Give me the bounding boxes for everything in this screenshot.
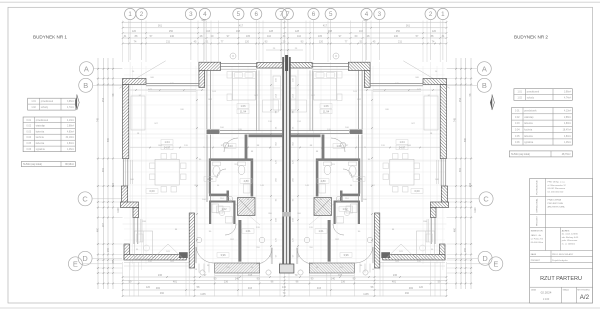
axis bubble B right <box>477 78 491 92</box>
svg-text:1:100: 1:100 <box>543 297 550 301</box>
interior wall bath middle <box>209 158 253 161</box>
svg-text:2,88m²: 2,88m² <box>67 125 74 128</box>
svg-text:0.02: 0.02 <box>27 126 32 128</box>
svg-text:1.04: 1.04 <box>164 140 170 144</box>
building unit 2 (mirrored) <box>285 62 449 273</box>
svg-text:A/2: A/2 <box>580 294 590 301</box>
svg-text:11,94: 11,94 <box>323 110 330 114</box>
svg-text:2,88: 2,88 <box>207 177 213 181</box>
svg-text:0.05: 0.05 <box>515 136 520 138</box>
svg-text:460: 460 <box>160 292 165 295</box>
bedroom right wall (double line) <box>256 70 258 130</box>
furniture sofa <box>131 96 145 130</box>
svg-text:0,00: 0,00 <box>149 189 155 193</box>
svg-text:PRACOWNIA: PRACOWNIA <box>548 199 562 202</box>
axis bubble D right <box>478 251 492 265</box>
axis bubble 6 <box>251 8 262 19</box>
ac unit dark box <box>179 252 188 258</box>
svg-text:A: A <box>84 64 89 73</box>
axis bubble D left <box>78 251 92 265</box>
svg-text:00-000 Wwa: 00-000 Wwa <box>531 242 544 244</box>
svg-text:Projekt budynku: Projekt budynku <box>552 259 568 262</box>
svg-text:105: 105 <box>318 35 323 38</box>
left table lower <box>23 117 75 152</box>
axis bubble 7 <box>276 8 287 19</box>
bottom dimension band <box>123 276 447 278</box>
svg-text:0,00: 0,00 <box>414 189 420 193</box>
title block <box>530 178 593 303</box>
svg-text:tel. 000 000 000: tel. 000 000 000 <box>548 190 564 193</box>
svg-text:460: 460 <box>405 292 410 295</box>
svg-text:4,74m²: 4,74m² <box>564 96 571 99</box>
svg-text:0.06: 0.06 <box>27 149 32 151</box>
right table upper <box>514 89 572 101</box>
entrance door arc <box>196 247 214 263</box>
svg-text:1120: 1120 <box>117 207 120 213</box>
svg-text:211: 211 <box>166 40 171 43</box>
svg-text:460: 460 <box>97 227 100 232</box>
level marker <box>363 270 368 275</box>
svg-text:198: 198 <box>236 30 241 33</box>
svg-text:482: 482 <box>409 287 414 290</box>
svg-text:482: 482 <box>156 287 161 290</box>
svg-text:przedsionek: przedsionek <box>36 119 49 122</box>
svg-text:391: 391 <box>459 167 462 172</box>
svg-text:B: B <box>482 81 487 90</box>
svg-text:236: 236 <box>158 274 163 277</box>
exterior wall: bottom-left stub <box>124 244 130 260</box>
party wall footing <box>280 264 294 273</box>
svg-text:3,96: 3,96 <box>343 253 349 257</box>
svg-text:PROJEKTOWA: PROJEKTOWA <box>548 202 564 205</box>
axis bubble 7 <box>282 8 293 19</box>
svg-text:140: 140 <box>331 278 336 281</box>
level marker <box>200 270 205 275</box>
svg-text:3,96m²: 3,96m² <box>67 100 74 103</box>
svg-text:przedsionek: przedsionek <box>527 91 540 94</box>
exterior wall: bottom left section <box>124 255 186 261</box>
svg-text:4,80m²: 4,80m² <box>67 130 74 133</box>
svg-text:236: 236 <box>393 274 398 277</box>
svg-text:80,96m²: 80,96m² <box>65 163 74 166</box>
axis bubble 5 <box>233 8 244 19</box>
svg-text:254: 254 <box>459 97 462 102</box>
svg-text:BUDYNEK NR 2: BUDYNEK NR 2 <box>514 35 548 40</box>
axis bubble C right <box>479 192 493 206</box>
svg-text:1.03: 1.03 <box>227 144 233 148</box>
svg-text:3,96m²: 3,96m² <box>564 91 571 94</box>
svg-text:ADRES: ADRES <box>562 230 570 233</box>
svg-text:O: O <box>232 55 234 58</box>
svg-text:745: 745 <box>454 117 457 122</box>
svg-text:E: E <box>493 259 498 268</box>
interior wall kitchen vertical <box>238 220 241 262</box>
axis bubble 6 <box>308 8 319 19</box>
interior wall bath left <box>209 161 211 194</box>
party wall (centre) <box>282 57 290 273</box>
svg-text:wiatrołap: wiatrołap <box>36 125 46 128</box>
axis bubble 1 <box>437 8 448 19</box>
furniture bed <box>233 72 256 101</box>
svg-text:120: 120 <box>245 40 250 43</box>
svg-text:211: 211 <box>398 40 403 43</box>
svg-text:120: 120 <box>432 30 437 33</box>
stair/shaft block <box>238 198 256 216</box>
bath fixtures <box>213 166 220 176</box>
window left wall <box>122 159 124 187</box>
svg-text:103: 103 <box>359 30 364 33</box>
svg-text:PROJEKT: PROJEKT <box>531 260 541 262</box>
svg-text:417: 417 <box>323 25 328 28</box>
svg-text:0.04: 0.04 <box>515 130 520 132</box>
wc fixtures <box>217 206 224 213</box>
top dimension band <box>123 21 447 23</box>
svg-text:6: 6 <box>312 11 316 18</box>
svg-text:105: 105 <box>246 35 251 38</box>
svg-text:254: 254 <box>102 97 105 102</box>
svg-text:BUDYNEK NR 1: BUDYNEK NR 1 <box>33 35 67 40</box>
furniture dining table <box>155 159 179 185</box>
svg-text:5: 5 <box>237 11 241 18</box>
axis bubble E right <box>489 257 503 271</box>
svg-text:OPRACOWAŁ: OPRACOWAŁ <box>536 198 539 213</box>
svg-text:2,88: 2,88 <box>356 177 362 181</box>
svg-text:198: 198 <box>328 30 333 33</box>
svg-text:110: 110 <box>297 35 302 38</box>
axis bubble A left <box>79 62 93 76</box>
svg-text:1120: 1120 <box>474 207 477 213</box>
right dimension band <box>455 58 457 289</box>
svg-text:460: 460 <box>454 227 457 232</box>
svg-text:ul. Warszawska 12: ul. Warszawska 12 <box>548 184 567 187</box>
svg-text:4: 4 <box>203 11 207 18</box>
interior wall bath right <box>251 161 254 197</box>
svg-text:250: 250 <box>169 30 174 33</box>
svg-text:NR RYSUNKU: NR RYSUNKU <box>577 290 590 292</box>
svg-text:120: 120 <box>146 286 151 289</box>
svg-text:0.03: 0.03 <box>515 123 520 125</box>
interior wall bath bottom <box>209 194 227 197</box>
svg-text:1: 1 <box>441 11 445 18</box>
svg-text:SUMA (cały lokal): SUMA (cały lokal) <box>23 163 42 166</box>
svg-text:0.01: 0.01 <box>27 120 32 122</box>
svg-text:120: 120 <box>319 40 324 43</box>
svg-text:łazienka: łazienka <box>524 136 533 138</box>
svg-text:120: 120 <box>132 30 137 33</box>
svg-text:D: D <box>82 254 87 263</box>
svg-text:1.06: 1.06 <box>240 104 246 108</box>
exterior wall: left upper <box>123 85 129 159</box>
svg-text:240: 240 <box>394 35 399 38</box>
svg-text:7: 7 <box>286 11 290 18</box>
svg-text:120: 120 <box>419 286 424 289</box>
wc left <box>209 201 211 225</box>
svg-text:481: 481 <box>392 281 397 284</box>
svg-text:0.02: 0.02 <box>515 117 520 119</box>
svg-text:3,96: 3,96 <box>220 253 226 257</box>
left table upper <box>28 98 76 110</box>
axis bubble 2 <box>136 8 147 19</box>
party wall top cap <box>285 55 288 71</box>
svg-text:294: 294 <box>469 182 472 187</box>
interior wall hall vertical (double line) <box>206 70 208 129</box>
svg-text:kuchnia: kuchnia <box>36 137 45 139</box>
svg-text:4,80: 4,80 <box>320 179 326 183</box>
svg-text:167: 167 <box>102 222 105 227</box>
svg-text:1.04: 1.04 <box>399 140 405 144</box>
axis bubble 1 <box>125 8 136 19</box>
svg-text:4,84m²: 4,84m² <box>564 135 571 138</box>
exterior wall: step vertical <box>133 208 139 218</box>
porch bottom terrace hatched <box>215 263 260 273</box>
interior wall hall corner <box>207 130 220 135</box>
svg-text:0.03: 0.03 <box>27 131 32 133</box>
window top-left band <box>146 82 199 84</box>
svg-text:D: D <box>482 254 487 263</box>
left dimension band <box>97 58 99 289</box>
svg-text:przedsionek: przedsionek <box>41 100 54 103</box>
svg-text:C: C <box>483 194 489 203</box>
svg-text:5: 5 <box>329 11 333 18</box>
svg-text:POZWOLENIE: POZWOLENIE <box>537 180 539 195</box>
svg-text:PRO JB Sp. z o.o.: PRO JB Sp. z o.o. <box>548 182 566 184</box>
kitchen counter <box>135 231 153 259</box>
svg-text:C: C <box>82 194 88 203</box>
svg-text:m. st. 146501: m. st. 146501 <box>562 242 576 245</box>
svg-text:110: 110 <box>267 35 272 38</box>
right table lower <box>512 108 573 146</box>
axis bubble B left <box>79 78 93 92</box>
svg-text:236: 236 <box>341 281 346 284</box>
svg-text:4: 4 <box>365 11 369 18</box>
axis bubble A right <box>477 62 491 76</box>
axis bubble C left <box>78 192 92 206</box>
svg-text:PROJEKT: PROJEKT <box>537 215 539 226</box>
svg-text:DATA: DATA <box>531 289 536 292</box>
axis bubble E left <box>68 257 82 271</box>
svg-text:4,80: 4,80 <box>243 179 249 183</box>
svg-text:403: 403 <box>317 287 322 290</box>
paper bottom edge <box>0 307 600 309</box>
svg-text:1,46m²: 1,46m² <box>564 141 571 144</box>
svg-text:SKALA: SKALA <box>563 289 570 292</box>
window top-mid band <box>221 63 257 65</box>
svg-text:1,46m²: 1,46m² <box>67 148 74 151</box>
svg-text:34,19m²: 34,19m² <box>66 136 75 139</box>
svg-text:590: 590 <box>464 137 467 142</box>
svg-text:988: 988 <box>363 19 368 22</box>
axis bubble 2 <box>425 8 436 19</box>
exterior wall: top corner vertical <box>199 70 205 87</box>
svg-text:155: 155 <box>107 247 110 252</box>
svg-text:0.04: 0.04 <box>27 137 32 139</box>
axis bubble 3 <box>374 8 385 19</box>
svg-text:1.01: 1.01 <box>245 229 251 233</box>
svg-text:0.05: 0.05 <box>27 143 32 145</box>
svg-text:988: 988 <box>201 19 206 22</box>
svg-text:24,97: 24,97 <box>399 146 406 150</box>
svg-text:1.01: 1.01 <box>318 229 324 233</box>
svg-text:236: 236 <box>224 281 229 284</box>
svg-text:przedsionek: przedsionek <box>524 110 537 113</box>
svg-text:24,97: 24,97 <box>164 146 171 150</box>
svg-text:4,74m²: 4,74m² <box>67 106 74 109</box>
axis bubble 5 <box>325 8 336 19</box>
svg-text:1135: 1135 <box>200 293 206 296</box>
level marker <box>266 270 271 275</box>
svg-text:kuchnia: kuchnia <box>524 130 533 132</box>
svg-text:sypialnia: sypialnia <box>36 149 46 151</box>
svg-text:4,13m²: 4,13m² <box>564 110 571 113</box>
svg-text:481: 481 <box>173 281 178 284</box>
interior extension line texture <box>129 62 131 270</box>
interior wall to party wall <box>249 134 283 137</box>
svg-text:3: 3 <box>189 11 193 18</box>
svg-text:PROJ. BUDOWLANY: PROJ. BUDOWLANY <box>552 253 574 256</box>
svg-text:1: 1 <box>128 11 132 18</box>
svg-text:11,94: 11,94 <box>240 110 247 114</box>
svg-text:B: B <box>83 81 88 90</box>
svg-text:łazienka: łazienka <box>36 131 45 133</box>
svg-text:A: A <box>482 64 487 73</box>
right table sum row <box>509 151 572 157</box>
svg-text:361: 361 <box>406 25 411 28</box>
svg-text:E: E <box>73 259 78 268</box>
svg-text:128: 128 <box>295 30 300 33</box>
svg-text:1.02: 1.02 <box>221 207 227 211</box>
svg-text:ul. Polna 7/2: ul. Polna 7/2 <box>531 238 544 240</box>
svg-text:417: 417 <box>239 25 244 28</box>
svg-text:0.01: 0.01 <box>515 111 520 113</box>
exterior wall: porch left <box>189 213 194 268</box>
svg-text:391: 391 <box>102 167 105 172</box>
svg-text:INWESTOR: INWESTOR <box>531 231 543 233</box>
svg-text:140: 140 <box>282 286 287 289</box>
svg-text:łazienka: łazienka <box>36 143 45 145</box>
svg-text:JAN K. i A.: JAN K. i A. <box>531 234 542 237</box>
room labels <box>161 140 173 145</box>
svg-text:schody: schody <box>527 97 535 99</box>
axis bubble 4 <box>361 8 372 19</box>
corridor wall double line <box>206 135 208 203</box>
svg-text:155: 155 <box>464 247 467 252</box>
svg-text:1.06: 1.06 <box>323 104 329 108</box>
wc right <box>233 201 235 225</box>
axis bubble 3 <box>185 8 196 19</box>
svg-text:O: O <box>335 55 337 58</box>
exterior wall: left bay top <box>123 79 147 85</box>
svg-text:ARCHITEKTURA: ARCHITEKTURA <box>548 206 566 209</box>
wc top <box>209 201 236 203</box>
interior door arc hall <box>224 138 238 152</box>
svg-text:1.02: 1.02 <box>517 97 522 99</box>
exterior wall: left lower <box>122 186 128 203</box>
svg-text:4,84m²: 4,84m² <box>67 142 74 145</box>
level marker <box>298 270 303 275</box>
svg-text:wiatrołap: wiatrołap <box>524 116 534 119</box>
svg-text:18,47m²: 18,47m² <box>563 129 572 132</box>
bedroom bottom wall (double line) <box>220 130 282 132</box>
svg-text:240: 240 <box>170 35 175 38</box>
north arrow left <box>75 97 77 111</box>
svg-text:6: 6 <box>254 11 258 18</box>
svg-text:128: 128 <box>269 30 274 33</box>
svg-text:łazienka: łazienka <box>524 123 533 125</box>
svg-text:02.2024: 02.2024 <box>541 291 552 295</box>
party wall joint <box>282 212 290 217</box>
svg-text:1.02: 1.02 <box>31 107 36 109</box>
svg-text:schody: schody <box>41 107 49 109</box>
svg-text:140: 140 <box>235 278 240 281</box>
svg-text:RZUT PARTERU: RZUT PARTERU <box>540 276 582 282</box>
svg-text:2,88m²: 2,88m² <box>564 116 571 119</box>
svg-text:2: 2 <box>429 11 433 18</box>
interior wall bath right upper <box>245 135 248 159</box>
svg-text:3: 3 <box>378 11 382 18</box>
bath lower vertical <box>227 191 230 202</box>
terrace door arc <box>256 248 272 264</box>
axis bubble 4 <box>199 8 210 19</box>
svg-text:FAZA: FAZA <box>531 253 537 256</box>
left table sum row <box>21 162 75 167</box>
svg-text:1135: 1135 <box>363 293 369 296</box>
svg-text:250: 250 <box>396 30 401 33</box>
svg-text:745: 745 <box>97 117 100 122</box>
svg-text:294: 294 <box>112 182 115 187</box>
svg-text:590: 590 <box>107 137 110 142</box>
svg-text:00-001 Warszawa: 00-001 Warszawa <box>548 187 566 190</box>
svg-text:sypialnia: sypialnia <box>524 142 534 144</box>
exterior wall: top corner horizontal <box>199 62 221 70</box>
svg-text:dz. ewid. 123/45: dz. ewid. 123/45 <box>562 234 579 236</box>
svg-text:1.02: 1.02 <box>342 207 348 211</box>
svg-text:obr. Bielany 4-05: obr. Bielany 4-05 <box>562 236 579 239</box>
svg-text:361: 361 <box>158 25 163 28</box>
terrace step lines bottom-left <box>124 262 189 264</box>
svg-text:1.01: 1.01 <box>31 101 36 103</box>
north arrow right <box>490 97 492 111</box>
svg-text:SUMA (cały lokal): SUMA (cały lokal) <box>511 153 530 156</box>
exterior wall: top centre <box>257 63 285 69</box>
exterior wall: step horizontal <box>121 202 139 208</box>
window inner sill lines <box>130 160 132 184</box>
svg-text:48,76m²: 48,76m² <box>562 153 571 156</box>
svg-text:4,13m²: 4,13m² <box>67 119 74 122</box>
svg-text:0.06: 0.06 <box>515 142 520 144</box>
wardrobe beside party wall <box>273 76 281 110</box>
svg-text:jedn. Warszawa: jedn. Warszawa <box>561 239 578 242</box>
svg-text:4,80m²: 4,80m² <box>564 122 571 125</box>
svg-text:1.01: 1.01 <box>517 92 522 94</box>
svg-text:2: 2 <box>140 11 144 18</box>
svg-text:403: 403 <box>248 287 253 290</box>
paper top edge <box>0 1 600 3</box>
window lower-left <box>133 218 135 245</box>
